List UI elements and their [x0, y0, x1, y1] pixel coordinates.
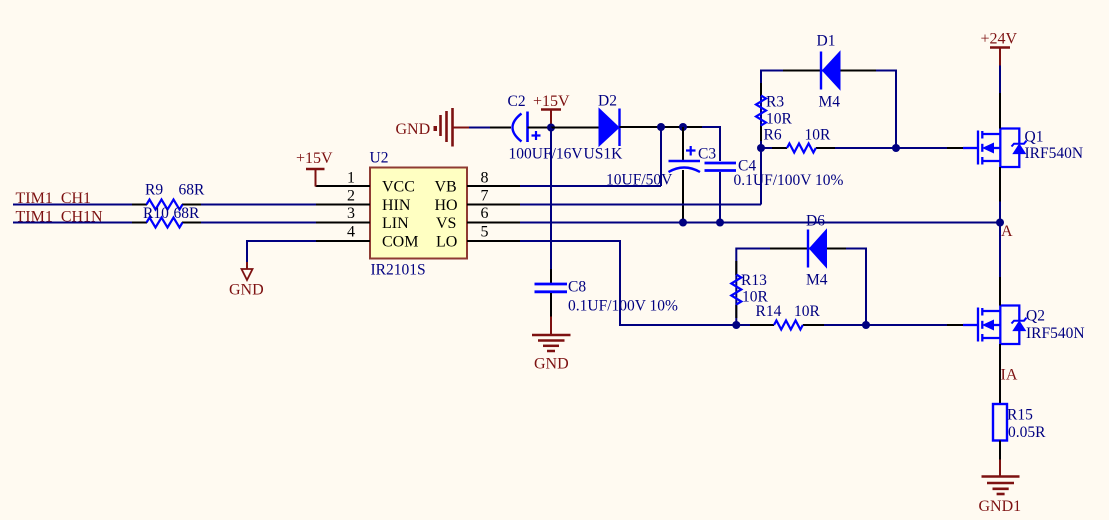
svg-text:0.1UF/100V 10%: 0.1UF/100V 10%: [734, 172, 844, 189]
wire VS net U2 pin6 to node A: [520, 222, 1000, 224]
svg-text:R6: R6: [764, 127, 782, 144]
capacitor C2 right pin: [528, 127, 552, 129]
capacitor C3 flat plate: [669, 160, 701, 163]
svg-text:2: 2: [347, 188, 355, 205]
Q1 drain pin: [999, 93, 1001, 129]
resistor R6 pins: [772, 147, 787, 149]
ground GND earth bar 1: [439, 115, 442, 136]
svg-text:R3: R3: [766, 94, 784, 111]
wire +24V to Q1 drain: [999, 66, 1001, 94]
diode D1 pins: [783, 70, 821, 72]
resistor R14 zigzag: [774, 321, 803, 330]
power +15V (top) stem: [550, 110, 552, 128]
junction dot R3/R6/HO node: [757, 144, 765, 152]
power +15V (top) bar: [541, 108, 561, 111]
wire TIM1_CH1N to R10: [13, 222, 132, 224]
wire Q1 source to node A: [999, 202, 1001, 223]
svg-text:10R: 10R: [794, 303, 821, 320]
ground GND (under C8) stem: [550, 317, 552, 336]
wire corner to C4: [702, 127, 720, 161]
svg-text:6: 6: [481, 205, 489, 222]
wire LO node to R14: [736, 324, 752, 326]
svg-text:IR2101S: IR2101S: [371, 262, 426, 279]
wire +15V node to D2 anode: [551, 127, 599, 129]
wire GND to C2 (red tail): [453, 127, 470, 129]
svg-text:+15V: +15V: [533, 93, 570, 110]
ground GND (under C8) bar4: [547, 350, 555, 353]
resistor R3 pins: [760, 83, 762, 96]
U2 pin 1 (VCC): [316, 185, 371, 187]
U2 pin 6 (VS): [467, 222, 520, 224]
svg-text:+15V: +15V: [296, 150, 333, 167]
ground GND (under C8) bar2: [538, 339, 565, 342]
op-amp driver U2 IR2101S body: [370, 168, 467, 259]
transistor Q2 IRF540N symbol: [963, 306, 1027, 345]
diode D2 triangle: [599, 109, 619, 147]
Q1 source pin: [999, 167, 1001, 202]
svg-text:VCC: VCC: [382, 179, 415, 196]
Q1 gate pin: [947, 147, 964, 149]
junction dot VB riser: [657, 123, 665, 131]
power +24V bar: [990, 46, 1010, 49]
wire R14 to Q2 gate: [824, 324, 947, 326]
ground GND arrow stem: [246, 262, 248, 269]
wire Q2 source to R15: [999, 374, 1001, 404]
ground GND earth bar 2: [445, 111, 448, 142]
wire GND to C2: [469, 127, 490, 129]
svg-text:10UF/50V: 10UF/50V: [606, 172, 673, 189]
svg-text:Q1: Q1: [1025, 129, 1044, 146]
power +15V at U2 VCC : stem: [315, 169, 317, 187]
junction dot node A: [996, 219, 1004, 227]
ground GND1 bar2: [987, 482, 1014, 485]
ground GND1 bar1: [982, 475, 1020, 478]
U2 pin 3 (LIN): [315, 222, 370, 224]
svg-text:GND: GND: [396, 121, 431, 138]
capacitor C2 left pin: [490, 127, 511, 129]
wire R6 node to R6: [761, 147, 774, 149]
ground GND1 bar3: [993, 487, 1009, 490]
svg-text:IRF540N: IRF540N: [1026, 325, 1085, 342]
capacitor C8 bottom pin: [550, 293, 552, 317]
ground GND open arrow: [242, 269, 253, 280]
svg-text:LO: LO: [436, 234, 457, 251]
ground GND earth bar 3: [451, 108, 454, 147]
svg-text:R14: R14: [756, 303, 782, 320]
wire R6 to gate node: [835, 147, 896, 149]
svg-text:4: 4: [347, 224, 355, 241]
wire +15V vertical to C8: [550, 128, 552, 284]
svg-text:A: A: [1001, 223, 1013, 240]
diode D6 triangle: [810, 230, 827, 268]
svg-text:VS: VS: [436, 215, 456, 232]
svg-text:M4: M4: [806, 272, 828, 289]
wire VB riser vertical: [660, 127, 662, 186]
svg-text:5: 5: [481, 224, 489, 241]
svg-text:US1K: US1K: [584, 146, 624, 163]
ground GND (earth, left-facing) small bar: [434, 126, 438, 131]
ground GND (under C8) bar3: [543, 345, 559, 348]
svg-text:0.05R: 0.05R: [1008, 424, 1046, 441]
resistor R13 pins: [735, 261, 737, 275]
svg-text:IA: IA: [1001, 367, 1018, 384]
resistor R9 zigzag: [147, 200, 183, 210]
resistor R9 pins: [132, 204, 147, 206]
svg-text:D1: D1: [817, 33, 836, 50]
svg-text:HIN: HIN: [382, 197, 411, 214]
wire R9 to U2 HIN: [201, 204, 316, 206]
power +24V stem: [999, 48, 1001, 66]
ground GND1 stem: [999, 460, 1001, 477]
svg-text:D6: D6: [806, 213, 825, 230]
svg-text:IRF540N: IRF540N: [1025, 145, 1084, 162]
capacitor C3 top lead: [682, 127, 684, 161]
ground GND (under C8) bar1: [532, 334, 571, 337]
resistor R14 pins: [750, 324, 774, 326]
U2 pin 8 (VB): [467, 185, 520, 187]
capacitor C8 plate 2: [535, 290, 568, 293]
diode D2 cathode bar: [618, 109, 620, 147]
svg-text:R13: R13: [741, 272, 767, 289]
svg-text:8: 8: [481, 170, 489, 187]
svg-text:7: 7: [481, 188, 489, 205]
power +15V at U2 VCC : bar: [306, 168, 325, 171]
junction dot C3 top: [679, 123, 687, 131]
resistor R15 body: [993, 404, 1007, 441]
ground GND1 bar4: [997, 493, 1005, 496]
wire HO riser up to R6 node: [760, 148, 762, 205]
Q2 drain pin: [999, 223, 1001, 278]
U2 pin 2 (HIN): [315, 204, 370, 206]
wire D2 cathode to C3/C4 rail: [620, 126, 721, 128]
svg-text:R9: R9: [145, 182, 163, 199]
svg-text:C8: C8: [568, 279, 586, 296]
wire R10 to U2 LIN: [201, 222, 316, 224]
capacitor C2 curved plate: [513, 114, 522, 142]
wire VB horizontal to U2 pin 8: [520, 185, 661, 187]
diode D1 triangle: [823, 52, 841, 90]
svg-text:GND1: GND1: [979, 498, 1022, 515]
svg-text:10R: 10R: [805, 127, 832, 144]
Q2 source pin: [999, 344, 1001, 374]
junction dot R6/D1/gate: [892, 144, 900, 152]
resistor R6 zigzag: [787, 144, 816, 153]
wire D6 top rail: [736, 249, 866, 326]
R15 bottom pin: [999, 441, 1001, 460]
resistor R3 zigzag: [756, 96, 766, 126]
U2 pin 7 (HO): [467, 204, 520, 206]
svg-text:GND: GND: [534, 356, 569, 373]
capacitor C4 plate 1: [705, 162, 737, 165]
resistor R10 zigzag: [147, 218, 183, 228]
wire HO from U2 pin7 to riser: [520, 204, 761, 206]
svg-text:+24V: +24V: [981, 31, 1018, 48]
diode D6 cathode bar: [807, 230, 809, 268]
capacitor C2 flat plate: [526, 112, 529, 143]
svg-text:1: 1: [347, 170, 355, 187]
svg-text:GND: GND: [229, 282, 264, 299]
junction dot C4 bottom on VS: [716, 219, 724, 227]
svg-text:COM: COM: [382, 234, 418, 251]
junction dot R13/R14/LO: [732, 321, 740, 329]
wire gate node to Q1 gate: [896, 147, 947, 149]
svg-text:D2: D2: [598, 93, 617, 110]
capacitor C3 bottom lead: [682, 170, 684, 223]
svg-text:HO: HO: [435, 197, 458, 214]
wire COM to GND corner: [247, 240, 316, 242]
transistor Q1 IRF540N symbol: [963, 129, 1027, 168]
capacitor C8 top pin: [550, 269, 552, 284]
wire GND vertical drop: [246, 240, 248, 262]
svg-text:U2: U2: [370, 150, 389, 167]
resistor R13 zigzag: [731, 275, 741, 305]
svg-text:LIN: LIN: [382, 215, 409, 232]
svg-text:68R: 68R: [174, 205, 201, 222]
wire LO from U2 pin5: [520, 241, 736, 325]
U2 pin 5 (LO): [467, 240, 520, 242]
svg-text:C3: C3: [698, 146, 716, 163]
junction dot +15V node: [547, 124, 555, 132]
wire TIM1_CH1 to R9: [13, 204, 132, 206]
diode D6 pins: [770, 248, 808, 250]
svg-text:Q2: Q2: [1026, 308, 1045, 325]
capacitor C3 curved plate: [669, 168, 701, 173]
capacitor C2 plus sign: [532, 131, 541, 140]
wire D1 top rail: [761, 71, 896, 149]
resistor R10 pins: [132, 222, 147, 224]
svg-text:R15: R15: [1007, 407, 1033, 424]
svg-text:10R: 10R: [766, 111, 793, 128]
capacitor C8 plate 1: [535, 283, 568, 286]
diode D1 cathode bar: [820, 52, 822, 90]
Q2 gate pin: [947, 324, 964, 326]
svg-text:C2: C2: [508, 93, 526, 110]
svg-text:100UF/16V: 100UF/16V: [509, 146, 584, 163]
capacitor C3 plus sign: [686, 146, 696, 156]
svg-text:R10: R10: [143, 205, 169, 222]
svg-text:3: 3: [347, 205, 355, 222]
U2 pin 4 (COM): [315, 240, 370, 242]
svg-text:68R: 68R: [179, 182, 206, 199]
junction dot R14/D6/gate: [862, 321, 870, 329]
junction dot C3 bottom on VS: [679, 219, 687, 227]
capacitor C4 bottom lead: [719, 172, 721, 223]
capacitor C4 plate 2: [705, 169, 737, 172]
svg-text:0.1UF/100V 10%: 0.1UF/100V 10%: [568, 298, 678, 315]
svg-text:M4: M4: [819, 94, 841, 111]
svg-text:VB: VB: [435, 179, 457, 196]
